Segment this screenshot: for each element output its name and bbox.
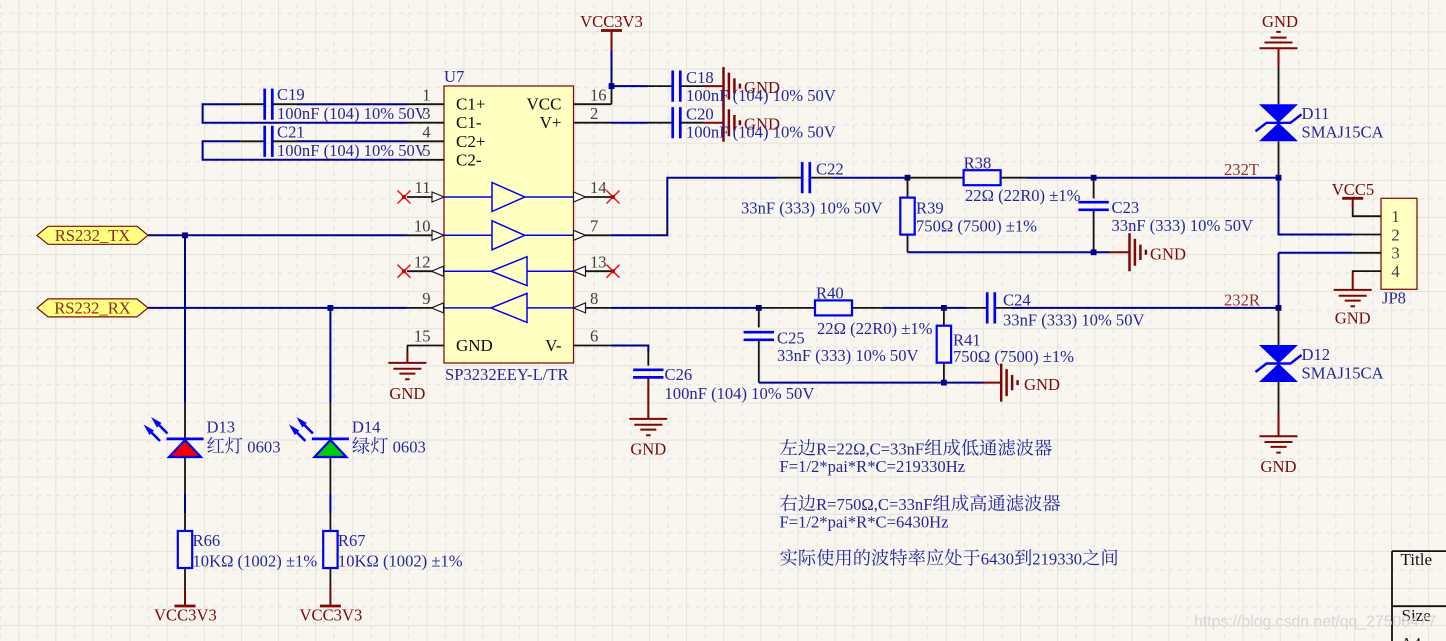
wire JP8 pin2 stub <box>1353 234 1381 236</box>
svg-text:GND: GND <box>1261 457 1297 476</box>
svg-text:C22: C22 <box>816 160 844 179</box>
pin 11 stub <box>407 196 444 198</box>
diode D12 <box>1259 345 1298 364</box>
svg-text:8: 8 <box>590 289 598 308</box>
ground GND highpass <box>983 382 1002 384</box>
wire C21 wrap <box>203 141 407 160</box>
resistor R40 leads <box>759 307 883 309</box>
diode D13 top lead <box>184 402 186 439</box>
capacitor C19 <box>265 89 273 120</box>
svg-text:R67: R67 <box>338 531 366 550</box>
resistor R41 bottom lead <box>943 363 945 383</box>
pin 13 stub <box>574 270 612 272</box>
value D13 <box>207 437 224 453</box>
pin 14 output arrow <box>574 192 586 202</box>
capacitor C22 <box>802 162 810 193</box>
no-erc pin 11 <box>398 191 411 204</box>
svg-text:13: 13 <box>590 252 607 271</box>
svg-text:C19: C19 <box>277 85 305 104</box>
svg-text:14: 14 <box>590 178 607 197</box>
pin 10 input arrow <box>432 230 444 240</box>
receiver buffer <box>444 307 491 309</box>
wire R40 to R41 <box>883 307 944 309</box>
svg-text:VCC3V3: VCC3V3 <box>300 606 363 625</box>
capacitor C23 <box>1078 202 1108 210</box>
svg-text:C18: C18 <box>686 68 714 87</box>
resistor R38 leads <box>908 177 1027 179</box>
resistor R38 <box>964 170 1001 185</box>
pin 13 input arrow <box>574 266 586 276</box>
svg-text:SMAJ15CA: SMAJ15CA <box>1302 123 1384 142</box>
wire D13 to R66 <box>184 494 186 513</box>
svg-text:C25: C25 <box>777 329 805 348</box>
svg-text:C20: C20 <box>686 105 714 124</box>
pin 5 stub <box>407 159 444 161</box>
power VCC5 <box>1342 197 1363 200</box>
svg-text:R66: R66 <box>193 531 221 550</box>
wire RX to D14 <box>329 308 331 402</box>
capacitor C26 bottom lead <box>647 378 649 419</box>
wire D14 to R67 <box>329 494 331 513</box>
resistor R41 top lead <box>943 308 945 326</box>
resistor R67 bottom lead <box>329 568 331 587</box>
svg-text:GND: GND <box>1262 12 1298 31</box>
svg-text:C2+: C2+ <box>456 132 485 151</box>
port RS232_RX <box>37 299 148 317</box>
driver buffer <box>444 234 492 236</box>
capacitor C23 top lead <box>1093 178 1095 199</box>
power VCC3V3 under R66 <box>175 605 196 608</box>
node R39 top <box>905 175 911 181</box>
svg-text:1: 1 <box>1391 207 1399 226</box>
pin 11 input arrow <box>432 192 444 202</box>
capacitor C20 <box>673 107 681 138</box>
wire 232T <box>1094 177 1279 179</box>
resistor R66 <box>178 531 192 568</box>
node C23 top <box>1091 175 1097 181</box>
wire C22 to R38 <box>833 177 908 179</box>
capacitor C22 leads <box>777 177 833 179</box>
capacitor C19 leads <box>240 103 296 105</box>
wire JP8 pin3 <box>1279 252 1353 254</box>
svg-text:C1-: C1- <box>456 113 482 132</box>
wire JP8 pin3 stub <box>1353 252 1381 254</box>
node 232T junction <box>1276 175 1282 181</box>
ground GND C18 <box>704 85 724 87</box>
diode D13 bottom lead <box>184 457 186 494</box>
svg-text:GND: GND <box>1024 375 1060 394</box>
pin 8 stub <box>574 307 612 309</box>
svg-text:R38: R38 <box>964 153 992 172</box>
connector JP8 body <box>1381 198 1417 289</box>
resistor R39 top lead <box>907 178 909 198</box>
capacitor C25 <box>744 332 774 340</box>
wire pin8 route <box>612 307 759 309</box>
ground GND lowpass <box>1110 251 1130 253</box>
wire D11 to 232T <box>1278 141 1280 177</box>
wire VCC5 to JP8 pin1 <box>1353 208 1381 216</box>
svg-text:D14: D14 <box>352 418 381 437</box>
svg-text:2: 2 <box>1391 225 1399 244</box>
svg-text:33nF (333) 10% 50V: 33nF (333) 10% 50V <box>1003 311 1145 330</box>
svg-text:11: 11 <box>415 178 431 197</box>
svg-text:V+: V+ <box>540 113 562 132</box>
driver buffer <box>444 196 492 198</box>
wire RS232_RX <box>148 307 407 309</box>
pin 2 stub <box>574 122 612 124</box>
receiver buffer <box>444 270 491 272</box>
svg-text:232T: 232T <box>1224 160 1259 179</box>
resistor R67 <box>323 531 337 568</box>
note line 5 <box>780 549 797 566</box>
diode D11 <box>1259 104 1298 123</box>
svg-text:12: 12 <box>414 252 431 271</box>
svg-text:C23: C23 <box>1112 198 1140 217</box>
svg-text:GND: GND <box>1150 245 1186 264</box>
pin 16 stub <box>574 103 612 105</box>
wire pin6 to C26 <box>612 346 649 353</box>
wire C19 wrap <box>203 104 407 123</box>
svg-text:R=750Ω,C=33nF: R=750Ω,C=33nF <box>816 495 932 514</box>
svg-text:2: 2 <box>590 104 598 123</box>
node C25 top <box>756 305 762 311</box>
svg-text:A4: A4 <box>1401 634 1422 641</box>
pin 9 stub <box>407 307 444 309</box>
svg-text:33nF (333) 10% 50V: 33nF (333) 10% 50V <box>1112 216 1254 235</box>
resistor R39 <box>900 198 914 235</box>
pin 7 stub <box>574 234 612 236</box>
pin 8 input arrow <box>574 303 586 313</box>
svg-text:D12: D12 <box>1302 345 1331 364</box>
svg-text:RS232_TX: RS232_TX <box>55 226 131 245</box>
svg-text:6: 6 <box>590 327 598 346</box>
svg-text:VCC3V3: VCC3V3 <box>154 606 217 625</box>
wire pin2 to C20 <box>612 122 649 124</box>
wire C19 to pin <box>297 103 408 105</box>
svg-text:1: 1 <box>422 85 430 104</box>
svg-text:Title: Title <box>1401 550 1433 569</box>
ground GND D11 <box>1260 32 1298 48</box>
capacitor C25 top lead <box>758 308 760 328</box>
svg-text:SMAJ15CA: SMAJ15CA <box>1302 364 1384 383</box>
pin 3 stub <box>407 122 444 124</box>
node VCC junction <box>609 83 615 89</box>
diode D14 top lead <box>329 402 331 439</box>
svg-text:0603: 0603 <box>247 437 280 456</box>
svg-text:22Ω (22R0) ±1%: 22Ω (22R0) ±1% <box>817 319 933 338</box>
capacitor C18 leads <box>648 85 704 87</box>
title block lines <box>1392 551 1446 641</box>
svg-text:7: 7 <box>590 217 598 236</box>
wire pin16 riser <box>611 86 613 104</box>
resistor R40 <box>815 300 852 315</box>
svg-text:GND: GND <box>456 336 493 355</box>
svg-text:33nF (333) 10% 50V: 33nF (333) 10% 50V <box>777 346 919 365</box>
svg-text:16: 16 <box>590 85 607 104</box>
svg-text:https://blog.csdn.net/qq_27508: https://blog.csdn.net/qq_27508477 <box>1194 614 1436 631</box>
svg-text:C1+: C1+ <box>456 95 485 114</box>
capacitor C25 bottom lead <box>758 340 760 382</box>
no-erc pin 13 <box>607 265 620 278</box>
ground GND pin15 <box>388 363 426 379</box>
svg-text:10: 10 <box>414 217 431 236</box>
svg-text:100nF (104) 10% 50V: 100nF (104) 10% 50V <box>277 104 427 123</box>
wire JP8 pin4 <box>1353 271 1381 273</box>
node RX junction <box>328 305 334 311</box>
wire TX to D13 <box>184 235 186 402</box>
svg-text:C21: C21 <box>277 122 305 141</box>
capacitor C26 <box>633 370 663 378</box>
pin 9 output arrow <box>432 303 444 313</box>
node 232R junction <box>1276 305 1282 311</box>
svg-text:R=22Ω,C=33nF: R=22Ω,C=33nF <box>816 439 924 458</box>
svg-text:9: 9 <box>422 289 430 308</box>
svg-text:C26: C26 <box>665 365 693 384</box>
svg-text:219330: 219330 <box>1032 549 1082 568</box>
wire D12 to GND <box>1278 382 1280 412</box>
wire JP8 pin3 riser <box>1278 253 1280 308</box>
ground GND D12 <box>1260 436 1298 452</box>
svg-text:4: 4 <box>1391 262 1400 281</box>
svg-text:100nF (104) 10% 50V: 100nF (104) 10% 50V <box>686 123 836 142</box>
svg-text:3: 3 <box>1391 244 1399 263</box>
wire pin15 drop <box>406 346 408 353</box>
node highpass bottom <box>941 380 947 386</box>
resistor R66 bottom lead <box>184 568 186 587</box>
node TX junction <box>182 232 188 238</box>
ground GND JP8 <box>1334 290 1372 306</box>
svg-text:SP3232EEY-L/TR: SP3232EEY-L/TR <box>445 365 569 384</box>
svg-text:F=1/2*pai*R*C=6430Hz: F=1/2*pai*R*C=6430Hz <box>780 512 949 531</box>
svg-text:VCC5: VCC5 <box>1332 180 1374 199</box>
pin 7 output arrow <box>574 230 586 240</box>
value D14 <box>352 437 369 454</box>
no-erc pin 14 <box>607 191 620 204</box>
diode D14 bottom lead <box>329 457 331 494</box>
wire JP8 pin2 <box>1279 178 1353 235</box>
svg-text:F=1/2*pai*R*C=219330Hz: F=1/2*pai*R*C=219330Hz <box>780 457 966 476</box>
led D14 <box>312 437 349 440</box>
svg-text:V-: V- <box>545 336 562 355</box>
op-amp U7 body <box>444 86 574 363</box>
wire 232R to D12 <box>1278 308 1280 345</box>
ground GND C26 <box>629 419 667 435</box>
svg-text:6430: 6430 <box>981 549 1014 568</box>
note line 1 <box>780 439 797 455</box>
ground GND C20 <box>704 122 724 124</box>
svg-text:33nF (333) 10% 50V: 33nF (333) 10% 50V <box>741 198 883 217</box>
capacitor C18 <box>673 71 681 102</box>
svg-text:100nF (104) 10% 50V: 100nF (104) 10% 50V <box>665 384 815 403</box>
wire RS232_TX <box>148 234 407 236</box>
no-erc pin 12 <box>398 265 411 278</box>
pin 15 stub <box>407 345 444 347</box>
pin 4 stub <box>407 140 444 142</box>
svg-text:100nF (104) 10% 50V: 100nF (104) 10% 50V <box>277 141 427 160</box>
wire R38 to C23 <box>1027 177 1094 179</box>
wire junction to C24 <box>944 307 966 309</box>
led D13 <box>167 437 204 440</box>
wire 232R <box>1011 307 1279 309</box>
pin 10 stub <box>407 234 444 236</box>
svg-text:750Ω (7500) ±1%: 750Ω (7500) ±1% <box>953 347 1074 366</box>
svg-text:22Ω (22R0) ±1%: 22Ω (22R0) ±1% <box>965 186 1081 205</box>
pin 12 stub <box>407 270 444 272</box>
svg-text:750Ω (7500) ±1%: 750Ω (7500) ±1% <box>916 217 1037 236</box>
svg-text:GND: GND <box>630 440 666 459</box>
note line 3 <box>780 494 797 511</box>
svg-text:JP8: JP8 <box>1382 289 1406 308</box>
svg-text:D11: D11 <box>1302 104 1330 123</box>
resistor R67 top lead <box>329 513 331 531</box>
node R41 top <box>941 305 947 311</box>
wire VCC3V3 to node <box>611 51 613 87</box>
capacitor C23 bottom lead <box>1093 210 1095 252</box>
pin 12 output arrow <box>432 266 444 276</box>
pin 1 stub <box>407 103 444 105</box>
wire GND to D11 <box>1278 48 1280 67</box>
svg-text:VCC3V3: VCC3V3 <box>580 12 643 31</box>
svg-text:C24: C24 <box>1003 291 1031 310</box>
svg-text:VCC: VCC <box>527 95 562 114</box>
svg-text:10KΩ (1002) ±1%: 10KΩ (1002) ±1% <box>193 551 318 570</box>
capacitor C24 <box>987 292 995 323</box>
port RS232_TX <box>37 226 148 244</box>
svg-text:U7: U7 <box>444 67 464 86</box>
resistor R39 bottom lead <box>907 235 909 253</box>
svg-text:0603: 0603 <box>393 437 426 456</box>
svg-text:232R: 232R <box>1224 290 1261 309</box>
svg-text:10KΩ (1002) ±1%: 10KΩ (1002) ±1% <box>338 551 463 570</box>
power VCC3V3 under R67 <box>320 605 341 608</box>
svg-text:RS232_RX: RS232_RX <box>54 298 131 317</box>
capacitor C24 leads <box>966 307 1019 309</box>
svg-text:R40: R40 <box>816 284 844 303</box>
svg-text:15: 15 <box>414 327 431 346</box>
svg-text:4: 4 <box>422 123 431 142</box>
capacitor C21 <box>265 126 273 157</box>
svg-text:GND: GND <box>1335 308 1371 327</box>
svg-text:R39: R39 <box>916 199 944 218</box>
capacitor C21 leads <box>240 140 296 142</box>
pin 14 stub <box>574 196 612 198</box>
node lowpass bottom <box>1091 249 1097 255</box>
svg-text:D13: D13 <box>207 418 236 437</box>
wire node to C18 <box>612 85 649 87</box>
wire highpass bottom <box>759 382 984 384</box>
capacitor C26 top lead <box>647 352 649 366</box>
wire pin7 route <box>612 178 777 236</box>
svg-text:GND: GND <box>389 384 425 403</box>
svg-text:100nF (104) 10% 50V: 100nF (104) 10% 50V <box>686 86 836 105</box>
wire lowpass bottom <box>908 251 1111 253</box>
pin 6 stub <box>574 345 612 347</box>
svg-text:C2-: C2- <box>456 150 482 169</box>
capacitor C20 leads <box>648 122 704 124</box>
resistor R41 <box>937 326 951 363</box>
power VCC3V3 top <box>601 29 622 32</box>
wire C21 to pin <box>297 140 408 142</box>
resistor R66 top lead <box>184 513 186 531</box>
